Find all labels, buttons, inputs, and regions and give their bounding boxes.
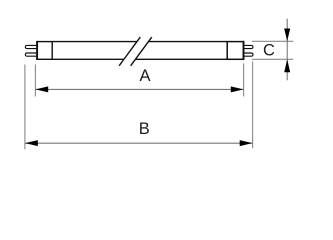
svg-text:B: B bbox=[139, 120, 150, 138]
break diagonal 1 bbox=[119, 37, 140, 66]
tube top line left segment bbox=[52, 41, 137, 43]
dimension line A bbox=[35, 88, 243, 90]
cap right outer edge bbox=[243, 41, 245, 60]
cap left bbox=[37, 42, 52, 60]
pin left top bbox=[25, 45, 37, 48]
svg-text:C: C bbox=[263, 42, 275, 60]
pin left bottom bbox=[25, 53, 37, 56]
tube bottom line left segment bbox=[52, 58, 124, 60]
pin right bottom bbox=[242, 53, 253, 56]
tube top line right segment bbox=[148, 41, 227, 43]
arrowhead A left bbox=[36, 86, 49, 92]
arrowhead C lower bbox=[284, 59, 290, 72]
tube bottom line right segment bbox=[135, 58, 227, 60]
arrowhead B right bbox=[240, 140, 253, 146]
cap right bbox=[227, 42, 243, 60]
extension line left pin tip (B) bbox=[24, 65, 26, 150]
extension line tube top (C) bbox=[252, 40, 293, 42]
extension line right pin tip (B) bbox=[252, 62, 254, 149]
pin right top bbox=[242, 45, 253, 48]
svg-text:A: A bbox=[139, 67, 150, 85]
extension line right cap face (A) bbox=[243, 64, 245, 97]
arrowhead A right bbox=[231, 86, 244, 92]
dimension line B bbox=[25, 142, 253, 144]
arrowhead C upper bbox=[284, 29, 290, 42]
break diagonal 2 bbox=[131, 37, 152, 66]
arrowhead B left bbox=[25, 140, 38, 146]
extension line tube bottom (C) bbox=[252, 58, 293, 60]
cap left outer edge bbox=[36, 41, 38, 60]
extension line left cap face (A) bbox=[34, 65, 36, 97]
dimension line C bbox=[286, 19, 288, 81]
